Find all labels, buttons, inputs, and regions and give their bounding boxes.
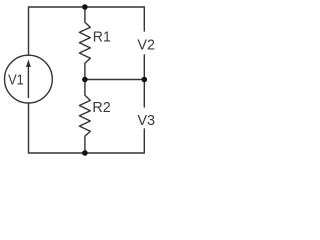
svg-text:V2: V2 (137, 38, 155, 54)
resistor R1 (79, 7, 90, 80)
junction dot on right branch at middle rail (142, 77, 148, 83)
svg-text:V1: V1 (8, 72, 24, 88)
junction dot at bottom of R2 (82, 150, 88, 156)
svg-text:R1: R1 (93, 30, 111, 46)
source V1 circle (5, 55, 53, 103)
junction dot at R1/R2 midpoint (82, 77, 88, 83)
wire: V3 lower stub + bottom rail + left lower riser (29, 103, 145, 153)
source V1 arrowhead (26, 59, 31, 67)
resistor R2 (79, 80, 90, 154)
svg-text:R2: R2 (92, 100, 110, 116)
wire: V2-to-node vertical segment (143, 55, 145, 107)
junction dot at top of R1 (82, 4, 88, 10)
svg-text:V3: V3 (137, 113, 155, 129)
wire: middle rail from R1/R2 junction to right branch (85, 79, 144, 81)
source V1 arrow shaft (27, 65, 29, 98)
wire: left riser + top rail + V2 upper stub (29, 7, 145, 55)
